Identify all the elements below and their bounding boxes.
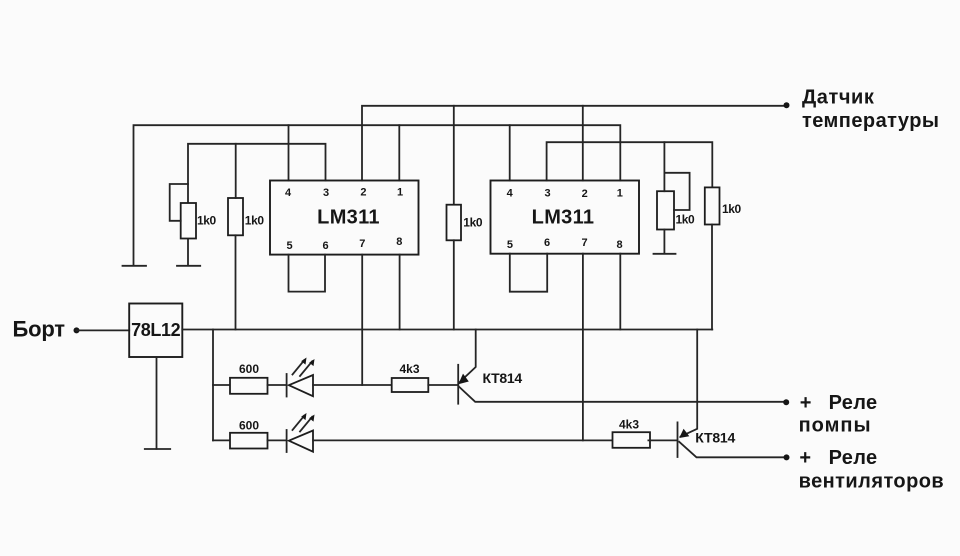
svg-text:2: 2 xyxy=(582,188,588,200)
svg-text:Датчик: Датчик xyxy=(802,86,875,108)
svg-text:1k0: 1k0 xyxy=(245,214,265,228)
svg-text:1k0: 1k0 xyxy=(722,202,742,216)
svg-text:3: 3 xyxy=(545,188,551,200)
svg-text:температуры: температуры xyxy=(802,110,939,132)
svg-text:Борт: Борт xyxy=(13,317,66,342)
svg-text:7: 7 xyxy=(581,237,587,249)
svg-text:Реле: Реле xyxy=(829,392,878,414)
svg-text:7: 7 xyxy=(359,238,365,250)
svg-text:1: 1 xyxy=(617,188,623,200)
svg-text:2: 2 xyxy=(360,187,366,199)
svg-text:5: 5 xyxy=(286,240,292,252)
svg-text:8: 8 xyxy=(616,239,622,251)
svg-text:помпы: помпы xyxy=(799,415,872,437)
svg-text:4k3: 4k3 xyxy=(619,417,639,431)
svg-text:Реле: Реле xyxy=(829,447,878,469)
svg-text:600: 600 xyxy=(239,419,259,433)
svg-text:600: 600 xyxy=(239,362,259,376)
svg-text:вентиляторов: вентиляторов xyxy=(799,470,945,492)
svg-text:6: 6 xyxy=(544,237,550,249)
svg-text:LM311: LM311 xyxy=(317,207,380,229)
svg-text:4k3: 4k3 xyxy=(399,362,419,376)
svg-text:КТ814: КТ814 xyxy=(483,370,523,386)
svg-text:+: + xyxy=(799,447,811,469)
svg-text:6: 6 xyxy=(322,240,328,252)
svg-text:1: 1 xyxy=(397,187,403,199)
svg-text:LM311: LM311 xyxy=(532,207,595,229)
svg-text:1k0: 1k0 xyxy=(463,216,483,230)
svg-text:78L12: 78L12 xyxy=(131,320,180,340)
svg-text:1k0: 1k0 xyxy=(197,214,217,228)
svg-text:5: 5 xyxy=(507,239,513,251)
svg-text:1k0: 1k0 xyxy=(676,213,696,227)
svg-text:+: + xyxy=(800,392,812,414)
svg-text:КТ814: КТ814 xyxy=(695,430,735,446)
svg-text:3: 3 xyxy=(323,187,329,199)
svg-text:4: 4 xyxy=(507,188,514,200)
svg-text:8: 8 xyxy=(396,236,402,248)
svg-text:4: 4 xyxy=(285,187,292,199)
